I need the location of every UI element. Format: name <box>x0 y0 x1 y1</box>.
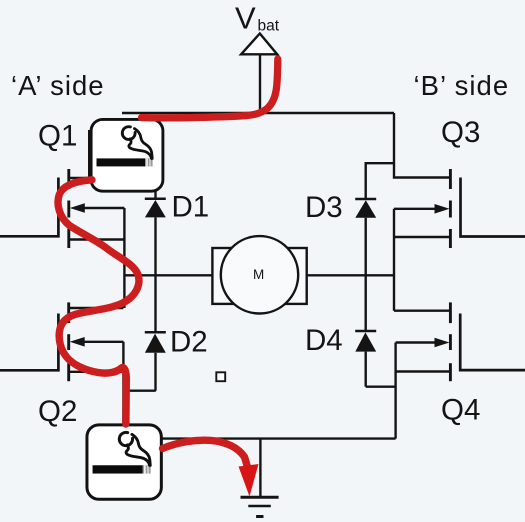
svg-text:Q3: Q3 <box>441 116 480 149</box>
svg-text:V: V <box>235 1 256 36</box>
transistor Q4 source lead <box>396 370 450 372</box>
svg-text:D4: D4 <box>305 324 343 357</box>
transistor Q2 source lead <box>69 371 124 373</box>
red current path: icon 2 to ground <box>163 440 248 467</box>
red current path: icon 1 through Q1 to icon 2 <box>58 180 139 424</box>
wire D2 anode to Q2 source <box>123 390 155 392</box>
wire D1 anode to D2 cathode <box>154 217 156 332</box>
motor wire node A <box>124 274 212 276</box>
transistor Q3 body arrow lead <box>394 208 437 210</box>
transistor Q1 drain lead <box>69 130 89 178</box>
diode D2 <box>145 331 166 334</box>
transistor Q4 body arrow lead <box>396 341 437 343</box>
svg-text:D3: D3 <box>305 191 343 224</box>
transistor Q1 channel <box>67 169 70 189</box>
diode D4 <box>355 330 376 333</box>
wire Q1 source to node A <box>123 208 125 308</box>
motor wire node B <box>307 274 394 276</box>
wire ground rail <box>123 437 395 439</box>
transistor Q3 channel <box>449 169 452 189</box>
wire Q4 source to ground rail <box>394 343 396 439</box>
svg-text:M: M <box>253 267 264 282</box>
svg-text:‘B’ side: ‘B’ side <box>414 70 510 101</box>
smoking icon 2 (low side A) <box>87 425 161 499</box>
transistor Q3 gate plate and lead <box>461 178 525 237</box>
Vbat arrow symbol <box>241 34 277 55</box>
svg-text:D2: D2 <box>170 326 208 359</box>
small square artifact <box>216 372 225 381</box>
svg-text:Q1: Q1 <box>38 120 77 153</box>
wire ground stem <box>259 439 261 497</box>
wire D2 anode down <box>154 353 156 391</box>
wire D3 cathode to rail <box>366 163 394 199</box>
svg-text:Q4: Q4 <box>441 394 480 427</box>
diode D3 <box>355 198 376 201</box>
transistor Q2 drain lead <box>69 307 124 309</box>
wire D1 cathode stub <box>154 190 156 199</box>
wire Q3 source to node B <box>393 209 395 311</box>
red arrowhead at ground <box>239 464 259 497</box>
wire Q2 source to ground rail <box>122 342 124 439</box>
transistor Q4 channel <box>449 302 452 323</box>
wire right rail drop to Q3 drain <box>394 113 450 178</box>
wire D3 anode to D4 cathode <box>365 218 367 331</box>
smoking icon 1 (high side A) <box>91 119 163 191</box>
transistor Q3 source lead <box>394 236 450 238</box>
transistor Q4 gate plate and lead <box>460 314 525 371</box>
transistor Q1 source lead <box>69 238 125 240</box>
motor M body <box>212 248 306 304</box>
wire node B drain lead of Q4 <box>394 310 450 312</box>
wire D4 anode down <box>365 352 367 387</box>
diode D1 <box>145 197 166 200</box>
transistor Q1 gate plate and lead <box>0 178 58 237</box>
ground symbol <box>241 496 279 499</box>
svg-text:D1: D1 <box>172 191 210 224</box>
svg-text:bat: bat <box>258 18 280 35</box>
Vbat stem wire <box>259 54 261 113</box>
svg-text:Q2: Q2 <box>38 395 77 428</box>
transistor Q1 body arrow lead <box>82 207 124 209</box>
red current path: Vbat to icon 1 <box>142 59 278 118</box>
transistor Q2 body arrow lead <box>82 341 123 343</box>
transistor Q2 gate plate and lead <box>0 314 58 371</box>
wire D4 anode to Q4 source <box>366 386 396 388</box>
transistor Q2 channel <box>67 302 70 323</box>
wire top rail Vbat <box>122 112 394 114</box>
svg-text:‘A’ side: ‘A’ side <box>11 70 105 101</box>
